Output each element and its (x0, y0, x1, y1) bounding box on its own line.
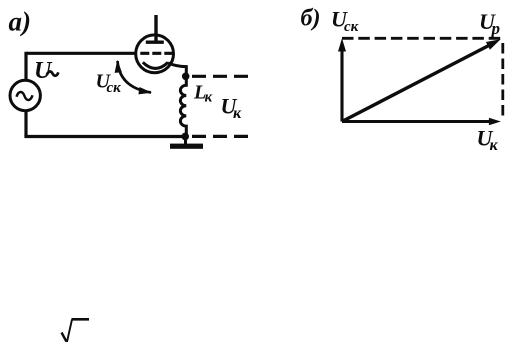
dashed lead right top (192, 75, 249, 78)
AC source G1 circle (10, 80, 40, 110)
tube grid dashed (140, 52, 173, 55)
AC source sine symbol (17, 92, 33, 100)
svg-text:a): a) (9, 7, 32, 37)
wire left vertical upper (24, 52, 27, 81)
ground bar (170, 144, 203, 149)
svg-text:ск: ск (107, 80, 122, 96)
node dot top (cathode/coil junction) (182, 73, 190, 81)
svg-text:ск: ск (344, 19, 359, 35)
wire left vertical lower (24, 111, 27, 137)
ground stub (184, 136, 187, 144)
svg-text:р: р (490, 19, 501, 38)
node dot bottom (ground junction) (181, 133, 189, 141)
tube cathode arc (143, 62, 168, 68)
curved arrow Uck (double-headed) (118, 61, 152, 93)
wire top horizontal (26, 52, 137, 55)
tube U1 envelope circle (136, 35, 174, 73)
svg-text:к: к (205, 90, 213, 106)
vector Uck vertical arrow (340, 50, 343, 122)
svg-text:к: к (233, 105, 242, 122)
inductor Lk coil (180, 76, 186, 136)
cathode lead wire (168, 63, 186, 77)
tube anode bar (146, 41, 164, 44)
dashed lead right bottom (192, 135, 249, 138)
vector Up diagonal arrow (342, 45, 490, 121)
dashed right side of rectangle (501, 43, 504, 119)
radical sign (cut off formula) (62, 333, 68, 342)
dashed top side of rectangle (342, 37, 504, 40)
wire bottom horizontal (24, 135, 186, 138)
vector Uk horizontal arrow (342, 120, 490, 123)
svg-text:б): б) (301, 6, 321, 32)
svg-text:к: к (490, 137, 499, 154)
tube anode lead (154, 15, 157, 42)
